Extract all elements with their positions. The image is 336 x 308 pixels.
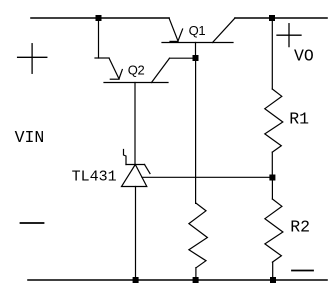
node R2 at bottom rail	[270, 277, 276, 283]
node Q1 base junction	[193, 55, 199, 61]
transistor Q2	[95, 58, 170, 83]
polarity minus VO	[292, 270, 313, 272]
shunt reference U1 TL431	[122, 150, 151, 187]
wire divider node to R2 top	[271, 178, 273, 200]
transistor Q1	[162, 18, 235, 58]
wire top rail right (Q1 collector to VO+)	[235, 17, 327, 19]
resistor R1	[265, 89, 283, 152]
polarity minus VIN	[21, 222, 44, 224]
wire VO node to R1 top	[271, 18, 273, 89]
wire TL431 anode to bottom rail	[135, 187, 137, 281]
node divider junction (R1/R2/ref)	[269, 175, 275, 181]
resistor R3 (Q1 base pulldown)	[189, 203, 208, 267]
node VO+ rail junction	[269, 15, 275, 21]
wire R1 bottom to divider node	[271, 152, 273, 177]
wire Q2 collector to Q1 base	[170, 57, 196, 59]
node R3 at bottom rail	[193, 277, 199, 283]
wire top rail left (VIN+ to Q1 emitter)	[31, 17, 169, 19]
svg-text:Q1: Q1	[189, 23, 206, 38]
svg-text:R1: R1	[289, 109, 309, 128]
svg-text:Q2: Q2	[128, 63, 145, 78]
polarity plus VIN	[18, 44, 47, 74]
wire Q2 base to TL431 cathode	[134, 83, 136, 165]
wire TL431 reference to divider node	[142, 176, 272, 178]
node VIN+ rail junction	[96, 15, 102, 21]
wire Q2 emitter drop from top rail	[98, 18, 100, 58]
wire Q1 base pulldown lead	[195, 58, 197, 203]
resistor R2	[265, 199, 283, 262]
wire R3 bottom lead	[195, 268, 197, 280]
wire bottom rail (common negative)	[28, 279, 327, 281]
node TL431 anode at bottom rail	[133, 277, 139, 283]
svg-text:VO: VO	[294, 47, 314, 66]
svg-text:TL431: TL431	[72, 168, 117, 185]
polarity plus VO	[277, 24, 301, 47]
svg-text:R2: R2	[290, 218, 310, 237]
wire R2 bottom lead	[272, 262, 274, 280]
svg-text:VIN: VIN	[15, 128, 45, 147]
